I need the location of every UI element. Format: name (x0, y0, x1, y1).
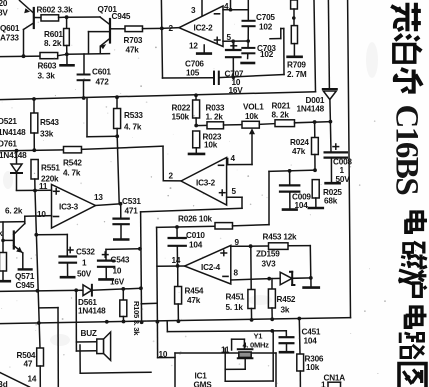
svg-text:CN1A: CN1A (324, 374, 346, 383)
svg-text:4. 0MHz: 4. 0MHz (243, 341, 270, 350)
svg-text:68k: 68k (324, 197, 338, 206)
node zener/R453 (309, 276, 313, 280)
transistor Q601 (20, 1, 34, 57)
title column: 苏泊尔 C16BS 电磁炉电路图 (rotated 90, hand-drawn CJK strokes) (389, 3, 428, 387)
label IC1 GMS (194, 372, 213, 387)
wire node to Q701 collector (67, 16, 100, 18)
svg-text:R602 3.3k: R602 3.3k (37, 6, 74, 15)
capacitor C532 electrolytic (60, 257, 77, 278)
svg-text:R709: R709 (287, 61, 306, 70)
buzzer BUZ speaker (97, 332, 111, 360)
plus sign IC2-4 (221, 250, 227, 255)
resistor R025 (309, 180, 323, 208)
pin 3 wire (201, 0, 203, 16)
diagonal line bottom-left (0, 373, 30, 387)
svg-text:BUZ: BUZ (81, 329, 97, 338)
wire x140 vertical (141, 212, 142, 322)
diode D001 (323, 89, 337, 122)
svg-text:Y1: Y1 (254, 332, 264, 341)
wire R033 to VOL1 (224, 124, 243, 126)
crystal Y1 (238, 349, 253, 369)
svg-text:R452: R452 (277, 295, 296, 304)
transistor Q571 (3, 216, 32, 269)
svg-text:Bd: Bd (0, 380, 8, 387)
svg-text:R542: R542 (63, 159, 82, 168)
ground under zener node (304, 278, 319, 288)
hanzi Dian 2 (406, 307, 427, 327)
label C008 1 50V (333, 158, 352, 185)
node D001/C008 (329, 120, 333, 124)
pin 12 ground (197, 45, 211, 54)
wire pin5 to node (223, 40, 248, 42)
node pin2 (160, 27, 164, 31)
svg-text:Q601: Q601 (0, 24, 20, 33)
pin 5 wire path (141, 197, 242, 212)
label R021 8.2k (272, 102, 291, 120)
zener ZD159 (269, 272, 311, 285)
svg-text:10: 10 (113, 267, 122, 276)
svg-text:14: 14 (172, 256, 181, 265)
capacitor C707 electrolytic (226, 39, 241, 79)
svg-text:11: 11 (221, 346, 230, 355)
resistor R454 (175, 266, 182, 321)
resistor R703 (125, 26, 143, 32)
label R033 1.2k (206, 104, 225, 122)
wire R026 to corner (233, 170, 316, 226)
label C451 104 (302, 328, 321, 346)
label R025 68k (323, 188, 342, 206)
wire y77 right segment (219, 75, 284, 78)
label R603 3.3k (38, 62, 57, 81)
svg-text:8V: 8V (0, 9, 8, 18)
wire Q601 base to R602 (35, 17, 41, 19)
label R542 4.7k (63, 159, 82, 178)
svg-text:IC3-3: IC3-3 (59, 203, 79, 212)
svg-text:9: 9 (235, 238, 240, 247)
wire vertical x162 (161, 0, 162, 78)
svg-text:R453 12k: R453 12k (263, 233, 298, 242)
label C707 10 16V (225, 69, 244, 95)
svg-text:C543: C543 (111, 256, 130, 265)
wire C706 riser (270, 29, 284, 75)
resistor R306 (297, 319, 304, 387)
label VOL1 10k (243, 103, 264, 122)
node C705/C703 (246, 39, 250, 43)
capacitor C531 (114, 204, 129, 240)
op-amp IC3-3 (52, 185, 96, 229)
plus sign IC3-2 (220, 190, 226, 195)
resistor R026 (215, 223, 233, 229)
node bus/R451 (250, 318, 254, 322)
op-amp IC2-4 (185, 245, 231, 284)
svg-text:13: 13 (94, 193, 103, 202)
label R601 8.2k (44, 30, 63, 48)
plus sign IC3-3 (54, 189, 60, 194)
wire bus corner up x314 (314, 0, 316, 92)
capacitor C451 (280, 331, 294, 352)
wire pin2 to IC2-2 (162, 27, 179, 30)
op-amp IC2-2 (179, 6, 223, 47)
svg-text:IC3-2: IC3-2 (196, 179, 216, 188)
node R602/R601 (65, 15, 69, 19)
svg-text:10k: 10k (245, 112, 259, 121)
label D761 1N4148 (left edge) (0, 140, 27, 161)
svg-text:104: 104 (304, 337, 318, 346)
svg-text:R551: R551 (41, 164, 60, 173)
wire R603 to base of Q701 (58, 54, 67, 55)
node R024/R025 (313, 168, 317, 172)
resistor R504 (37, 348, 44, 387)
node R022/R033 (194, 124, 198, 128)
svg-text:20: 20 (0, 0, 8, 8)
svg-text:14: 14 (28, 375, 37, 384)
svg-text:2: 2 (169, 24, 174, 33)
svg-text:10k: 10k (306, 363, 320, 372)
svg-text:50V: 50V (336, 175, 351, 184)
svg-text:C532: C532 (76, 248, 95, 257)
svg-text:8. 2k: 8. 2k (272, 111, 290, 120)
node bus/x157 (156, 320, 160, 324)
node pin9/R451 (249, 244, 253, 248)
node R601/R603 (65, 52, 69, 56)
svg-text:R033: R033 (206, 104, 225, 113)
node pin8/R452 (267, 277, 271, 281)
wire C601 drop (83, 54, 85, 74)
svg-text:1: 1 (340, 166, 345, 175)
svg-text:5: 5 (232, 187, 237, 196)
resistor R709 (288, 26, 302, 57)
svg-text:1. 2k: 1. 2k (206, 113, 224, 122)
ground under R601 (61, 54, 74, 65)
label R504 47 (17, 351, 36, 369)
wire C543 top (106, 249, 139, 260)
svg-text:C705: C705 (256, 13, 275, 22)
svg-text:8. 2k: 8. 2k (44, 39, 62, 48)
label ZD159 3V3 (256, 250, 280, 269)
node x36/D561 (36, 289, 40, 293)
wire to IC3-2 pin2 (118, 146, 181, 181)
svg-text:R026 10k: R026 10k (178, 215, 213, 224)
node R543/R551 (32, 148, 36, 152)
wire x80 corner (80, 345, 151, 373)
pin 11 wire (17, 189, 52, 191)
svg-text:33k: 33k (40, 130, 54, 139)
svg-text:50V: 50V (77, 270, 92, 279)
label D561 1N4148 (78, 298, 106, 316)
svg-text:R105 3. 3k: R105 3. 3k (132, 301, 141, 336)
svg-text:1: 1 (321, 381, 326, 387)
hanzi Po (394, 35, 422, 63)
label R452 3k (277, 295, 296, 315)
node crystal branch (270, 329, 274, 333)
node bus/R543 (32, 97, 36, 101)
wire x329 top to D001 (328, 0, 329, 89)
label R709 2.7M (287, 61, 307, 79)
wire R453 row (251, 246, 311, 278)
label R703 47k (124, 36, 143, 55)
label C531 471 (122, 197, 141, 216)
svg-text:2. 7M: 2. 7M (287, 70, 307, 79)
svg-text:102: 102 (260, 50, 274, 59)
IC1 box (175, 353, 276, 387)
svg-text:R022: R022 (172, 104, 191, 113)
node R105 top (121, 287, 125, 291)
svg-text:D761: D761 (0, 140, 17, 149)
wire R602 to node (59, 16, 67, 18)
node base tap (1, 239, 5, 243)
hanzi Su (391, 3, 421, 32)
svg-text:104: 104 (189, 241, 203, 250)
capacitor C703 (242, 41, 255, 63)
hanzi Lu (stove) (399, 270, 427, 296)
pin 8 wire (231, 279, 269, 280)
svg-text:4: 4 (231, 154, 236, 163)
wire y77 left segment (163, 77, 213, 79)
bus B horizontal (0, 318, 351, 324)
pin 4 wire (223, 0, 232, 12)
crystal loop left (232, 339, 245, 350)
svg-text:C451: C451 (302, 328, 321, 337)
svg-text:R021: R021 (272, 102, 291, 111)
svg-text:GMS: GMS (194, 381, 213, 387)
crystal loop bottom (225, 331, 273, 381)
svg-text:R454: R454 (185, 287, 204, 296)
label R022 150k (172, 104, 191, 122)
wire R026 row (157, 226, 215, 227)
pin 14 wire (157, 265, 185, 267)
plus sign C707 (231, 43, 237, 48)
svg-text:472: 472 (96, 78, 110, 87)
label C601 472 (92, 68, 111, 87)
capacitor C010 (169, 225, 186, 265)
capacitor C706 series (214, 72, 219, 84)
capacitor C008 electrolytic (325, 122, 347, 184)
wire x157 to IC1 pin10 (157, 322, 175, 358)
resistor R024 (312, 122, 319, 170)
label C706 105 (185, 60, 204, 78)
label D001 1N4148 (297, 96, 325, 114)
svg-text:47: 47 (24, 360, 33, 369)
svg-text:11: 11 (39, 182, 48, 191)
svg-text:VOL1: VOL1 (243, 103, 264, 112)
wire left edge vertical x3 (2, 222, 4, 253)
node bus/R454 (177, 319, 181, 323)
resistor R533 (114, 97, 121, 136)
plus sign IC2-2 (215, 37, 221, 42)
minus sign IC2-2 (215, 13, 220, 15)
svg-text:C16BS: C16BS (389, 105, 425, 195)
wire pin4 node to C705 (231, 9, 249, 11)
node C543 wire (138, 247, 142, 251)
node bus/R533 (115, 95, 119, 99)
resistor R105 (120, 289, 127, 322)
svg-text:R024: R024 (290, 138, 309, 147)
svg-text:5. 1k: 5. 1k (226, 303, 244, 312)
node bus/x141 (140, 320, 144, 324)
svg-text:IC2-4: IC2-4 (201, 263, 221, 272)
plus sign C008 (333, 144, 339, 149)
main vertical x36 (35, 191, 40, 349)
label C009 104 (292, 193, 311, 211)
node bus/buzzer (105, 320, 109, 324)
node bus/R452 (270, 317, 274, 321)
svg-text:3k: 3k (281, 306, 290, 315)
node bus/C601 (82, 96, 86, 100)
svg-text:IC1: IC1 (195, 372, 208, 381)
VOL1 wiper arrow (228, 128, 255, 164)
potentiometer VOL1 (242, 121, 259, 128)
svg-text:C531: C531 (122, 197, 141, 206)
label D521 1N4148 (left edge) (0, 117, 26, 137)
svg-text:1: 1 (82, 259, 87, 268)
node Q601 emitter / R603 (22, 54, 26, 58)
node pin11/R551 (33, 189, 37, 193)
svg-text:D521: D521 (0, 117, 17, 126)
wire left edge to R603 (0, 55, 40, 58)
resistor R452 (268, 279, 275, 320)
svg-text:3: 3 (191, 6, 196, 15)
svg-text:Q571: Q571 (15, 272, 35, 281)
svg-text:A733: A733 (0, 34, 19, 43)
label R533 4.7k (124, 111, 143, 132)
svg-text:102: 102 (259, 23, 273, 32)
node C532 tap (34, 233, 38, 237)
node R533 bottom (115, 134, 119, 138)
svg-text:150k: 150k (172, 113, 190, 122)
svg-text:R703: R703 (124, 36, 143, 45)
svg-text:C601: C601 (92, 68, 111, 77)
svg-text:C945: C945 (112, 12, 131, 21)
svg-text:4: 4 (224, 2, 229, 11)
svg-text:C945: C945 (16, 281, 35, 290)
wire y150 row (0, 150, 64, 151)
plus sign C543 (103, 252, 109, 257)
buzzer BUZ leads (76, 290, 97, 351)
jog wire y303 (141, 302, 157, 305)
svg-text:R451: R451 (226, 293, 245, 302)
svg-text:4. 7k: 4. 7k (63, 169, 81, 178)
label R024 47k (290, 138, 309, 156)
wire Q701 base from R703 (111, 28, 125, 30)
hanzi Er (395, 69, 422, 92)
label C705 102 (256, 13, 275, 32)
resistor R023 (189, 131, 204, 154)
label Q701 C945 (98, 5, 131, 21)
svg-text:47k: 47k (187, 296, 201, 305)
node C009 top (288, 169, 292, 173)
wire left edge y221 (0, 221, 25, 223)
node diode tap (15, 149, 19, 153)
node pin14 (176, 264, 180, 268)
svg-text:1N4148: 1N4148 (297, 105, 325, 114)
diode D521/D761 stack (11, 151, 22, 191)
svg-text:16V: 16V (110, 278, 125, 287)
pin 13 output wire (96, 204, 121, 206)
wire x58 drop (40, 308, 58, 387)
node bus/R105 (122, 320, 126, 324)
resistor left edge (clipped) (0, 253, 10, 282)
resistor R021 (275, 120, 295, 127)
svg-text:47k: 47k (126, 46, 140, 55)
resistor R033 (207, 122, 224, 129)
svg-text:8: 8 (234, 269, 239, 278)
hanzi Dian 1 (406, 212, 427, 232)
wire x157 vertical (156, 227, 159, 321)
resistor R543 (31, 99, 38, 150)
svg-text:105: 105 (186, 69, 200, 78)
wire x87 branch (87, 98, 117, 137)
label C543 10 16V (110, 256, 130, 287)
resistor R451 (248, 246, 255, 320)
op-amp IC3-2 (181, 158, 227, 206)
label R543 33k (40, 118, 59, 139)
node pin13/C531 (119, 202, 123, 206)
svg-text:104: 104 (295, 201, 309, 210)
svg-text:R603: R603 (38, 62, 57, 71)
svg-text:1N4148: 1N4148 (0, 128, 26, 137)
pin 9 wire (231, 245, 251, 247)
capacitor C009 (280, 171, 299, 210)
transistor Q701 (89, 17, 111, 54)
svg-text:10k: 10k (204, 141, 218, 150)
label C703 102 (257, 44, 276, 59)
svg-text:4. 7k: 4. 7k (124, 123, 142, 132)
resistor R551 (31, 160, 38, 192)
pin 10 wire (25, 215, 52, 218)
svg-text:10: 10 (37, 210, 46, 219)
wire bus to IC1 row (167, 322, 286, 332)
label R023 10k (203, 133, 222, 150)
svg-text:IC2-2: IC2-2 (194, 24, 214, 33)
resistor R602 (41, 15, 59, 21)
minus sign IC2-4 (223, 275, 228, 277)
node R024 top (313, 120, 317, 124)
label R451 5.1k (226, 293, 245, 313)
wire x117 vertical (117, 136, 119, 203)
wire R703 to pin2 node (143, 27, 162, 29)
connector CN1A box (328, 382, 341, 387)
capacitor C543 electrolytic (98, 261, 114, 280)
hanzi Tu (399, 364, 426, 387)
wire C532 top (36, 235, 67, 257)
svg-text:2: 2 (169, 172, 174, 181)
wire node to R033 (196, 124, 207, 126)
svg-text:1N4148: 1N4148 (0, 151, 27, 160)
resistor R603 (40, 53, 58, 59)
svg-text:1N4148: 1N4148 (78, 307, 106, 316)
wire R542 to x117 (82, 148, 119, 149)
diode D561 (83, 285, 141, 296)
svg-text:3. 3k: 3. 3k (38, 72, 56, 81)
svg-text:R601: R601 (44, 30, 63, 39)
capacitor C601 (78, 75, 90, 99)
label C010 104 (186, 231, 205, 250)
resistor R601 (64, 17, 70, 54)
svg-text:ZD159: ZD159 (256, 250, 280, 259)
hanzi Ci (401, 242, 427, 270)
resistor R542 (64, 147, 82, 153)
node bus/x36 (37, 321, 41, 325)
node buzzer top (74, 288, 78, 292)
right border line (348, 0, 351, 318)
label Q601 A733 (0, 24, 20, 43)
label R306 10k (305, 355, 324, 373)
plus sign C532 (68, 247, 74, 252)
label Y1 4.0MHz (243, 332, 270, 350)
hanzi Lu (road) (400, 333, 424, 359)
svg-text:6. 2k: 6. 2k (5, 207, 23, 216)
node bus/R022 (194, 93, 198, 97)
